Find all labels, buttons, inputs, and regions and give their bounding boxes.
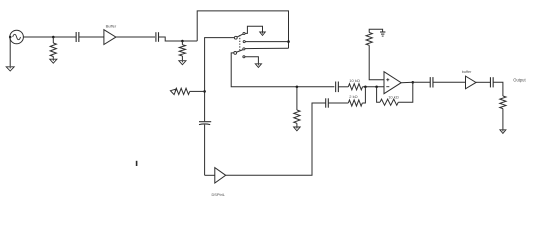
wire U2 output loop up to C4 branch bbox=[226, 103, 326, 175]
wire op-amp non-inverting input bbox=[369, 45, 384, 79]
ground (R2) bbox=[179, 61, 186, 65]
amplifier U2 DSPtriL bbox=[215, 168, 226, 183]
switch S1a pole contact bbox=[234, 36, 237, 39]
switch gang link (dashed) bbox=[239, 35, 241, 50]
switch S1a arm bbox=[237, 34, 244, 37]
wire throw2 to rail bbox=[245, 41, 288, 43]
switch S1b throw 1 contact bbox=[243, 48, 245, 50]
wire C7 to R9 bbox=[493, 82, 503, 96]
wire feedback: node G down to R8 bbox=[377, 87, 380, 102]
wire node D: pole1 to vertical node line bbox=[205, 38, 235, 122]
wire R9 to ground bbox=[502, 109, 504, 130]
wire R6 to op-amp inverting input bbox=[363, 86, 385, 88]
svg-text:DSPtriL: DSPtriL bbox=[212, 192, 226, 197]
buffer amp U4 bbox=[466, 76, 477, 89]
wire R7 to bar ground bbox=[369, 29, 382, 32]
capacitor C6 bbox=[429, 77, 431, 87]
node E junction bbox=[296, 86, 299, 89]
switch S1b throw 2 contact bbox=[243, 56, 245, 58]
resistor R1 (shunt) bbox=[50, 43, 56, 57]
wire S1b throw2 to ground bbox=[245, 57, 259, 64]
wire to R1 bbox=[52, 37, 54, 43]
node H junction (output/feedback) bbox=[412, 81, 415, 84]
switch S1a throw 1 contact bbox=[243, 32, 245, 34]
resistor R7 (bias) bbox=[366, 33, 372, 46]
capacitor C2 bbox=[155, 32, 157, 42]
wire top rail bbox=[197, 11, 288, 48]
svg-text:Output: Output bbox=[513, 78, 526, 83]
ground (bar style) bbox=[380, 31, 385, 33]
wire source to C1 bbox=[23, 36, 76, 38]
svg-text:2 kΩ: 2 kΩ bbox=[349, 94, 357, 99]
ground (source) bbox=[6, 67, 14, 71]
wire C5 to R6 bbox=[338, 86, 348, 88]
capacitor C5 bbox=[335, 82, 337, 93]
wire U4 to C7 bbox=[476, 81, 490, 83]
node A junction bbox=[52, 36, 55, 39]
node C junction (rail/throw) bbox=[287, 40, 290, 43]
resistor R4 (shunt) bbox=[294, 110, 300, 123]
resistor R3 bbox=[175, 88, 190, 94]
AC source V1 bbox=[10, 30, 24, 44]
wire C1 to buffer U1 bbox=[79, 36, 104, 38]
capacitor C1 bbox=[75, 32, 77, 42]
resistor R5 2k bbox=[348, 100, 362, 106]
ground (S1b throw) bbox=[255, 64, 261, 68]
wire C4 to R5 bbox=[328, 102, 348, 104]
op-amp U3 bbox=[384, 72, 401, 94]
node B junction bbox=[181, 40, 184, 43]
ground (R1) bbox=[50, 59, 57, 63]
wire into DSP amp bbox=[205, 174, 215, 176]
wire throw1 to ground bbox=[245, 26, 263, 33]
wire C2 to corner (with jog) bbox=[159, 37, 198, 41]
ground (S1a throw) bbox=[260, 32, 266, 35]
svg-text:10 kΩ: 10 kΩ bbox=[349, 78, 360, 83]
buffer amp U1 bbox=[104, 30, 116, 45]
ground (R9) bbox=[500, 130, 506, 134]
wire pole S1b down to lower rail bbox=[231, 53, 334, 87]
switch S1b pole contact bbox=[234, 52, 237, 55]
node: source left terminal junction bbox=[9, 36, 12, 39]
wire feedback: R8 up to output bbox=[398, 82, 413, 102]
wire source to ground bbox=[9, 37, 11, 66]
switch S1a throw 2 contact bbox=[243, 41, 245, 43]
resistor R6 10k bbox=[348, 84, 362, 90]
switch S1b arm bbox=[236, 50, 243, 53]
capacitor C3 bbox=[199, 121, 211, 123]
wire C3 to DSP amp bbox=[204, 125, 206, 176]
resistor R8 10k feedback bbox=[380, 99, 398, 105]
wire R3 to node line bbox=[190, 90, 205, 92]
wire to C6 bbox=[413, 81, 430, 83]
wire C6 to buffer U4 bbox=[433, 81, 466, 83]
page mark 1 bbox=[136, 161, 138, 166]
node D junction (R3 tap) bbox=[203, 90, 206, 93]
wire S1b throw1 to rail bbox=[245, 47, 289, 49]
wire to R4 bbox=[296, 87, 298, 110]
wire op-amp output bbox=[401, 81, 413, 83]
node F junction (2k joins) bbox=[364, 86, 367, 89]
capacitor C4 bbox=[325, 98, 327, 107]
wire R5 up to node F bbox=[362, 87, 365, 103]
node G junction (feedback tap) bbox=[375, 86, 378, 89]
capacitor C7 bbox=[489, 77, 491, 87]
svg-text:10 kΩ: 10 kΩ bbox=[388, 95, 399, 100]
op-amp - input mark bbox=[386, 86, 389, 88]
ground (R4) bbox=[294, 127, 301, 131]
resistor R2 (shunt) bbox=[179, 45, 185, 56]
ground arrow (R3, pointing left) bbox=[170, 89, 176, 95]
svg-text:Buffer: Buffer bbox=[106, 23, 117, 28]
wire U1 to C2 bbox=[116, 36, 155, 38]
svg-text:buffer: buffer bbox=[462, 70, 472, 74]
resistor R9 (load) bbox=[500, 96, 506, 109]
wire to R2 bbox=[181, 41, 183, 45]
op-amp + input mark bbox=[386, 78, 389, 81]
